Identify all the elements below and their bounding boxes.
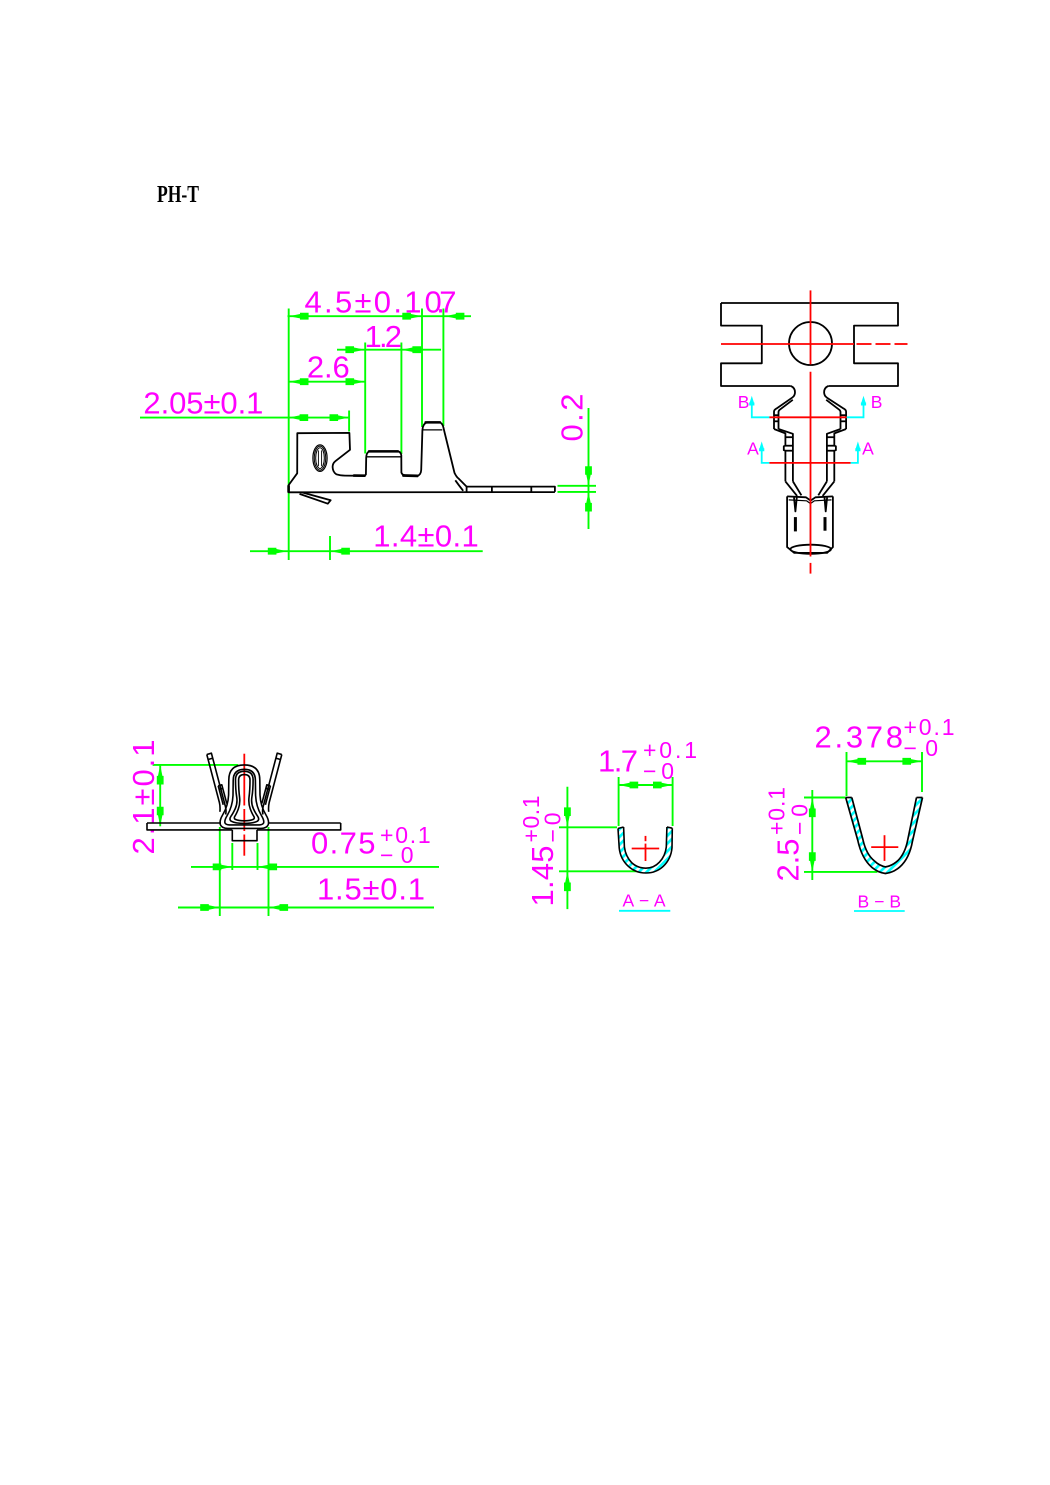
svg-text:0.2: 0.2 xyxy=(555,394,590,442)
svg-text:2.378: 2.378 xyxy=(815,720,904,755)
svg-text:2.05±0.1: 2.05±0.1 xyxy=(143,386,263,421)
svg-text:1.2: 1.2 xyxy=(365,319,403,354)
svg-text:0.75: 0.75 xyxy=(311,826,376,861)
svg-text:0.7: 0.7 xyxy=(425,285,457,320)
svg-text:1.7: 1.7 xyxy=(598,744,638,779)
svg-text:2.6: 2.6 xyxy=(307,350,350,385)
svg-text:2.5: 2.5 xyxy=(770,839,805,882)
svg-text:1.4±0.1: 1.4±0.1 xyxy=(373,518,478,553)
svg-text:1.45: 1.45 xyxy=(525,846,560,907)
svg-text:A: A xyxy=(862,438,874,458)
svg-text:B: B xyxy=(871,392,883,412)
svg-text:A−A: A−A xyxy=(623,891,666,911)
svg-text:B: B xyxy=(738,392,750,412)
svg-text:B−B: B−B xyxy=(858,892,902,912)
svg-text:1.5±0.1: 1.5±0.1 xyxy=(317,872,425,907)
svg-text:PH-T: PH-T xyxy=(157,182,199,208)
svg-text:A: A xyxy=(747,438,759,458)
